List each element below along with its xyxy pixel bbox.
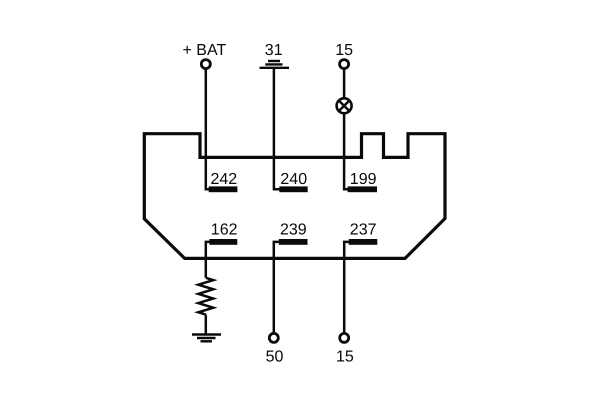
svg-text:15: 15	[336, 349, 354, 366]
svg-text:199: 199	[350, 171, 377, 188]
wire pin 162 to resistor	[206, 242, 210, 278]
wire + BAT to pin 242	[206, 70, 212, 190]
terminal circle 15 (bottom)	[340, 333, 349, 342]
wire resistor to ground	[205, 315, 208, 335]
wire 31 to pin 240	[274, 68, 282, 189]
svg-text:237: 237	[350, 221, 377, 238]
pin 242 contact bar	[209, 186, 238, 192]
connector housing outline	[144, 134, 445, 259]
terminal circle 15 (top)	[340, 60, 349, 69]
terminal circle 50	[269, 333, 278, 342]
wire pin 239 to terminal 50	[274, 242, 283, 332]
wire lamp to pin 199	[344, 114, 351, 190]
wire pin 237 to terminal 15 (bottom)	[344, 242, 353, 332]
svg-text:15: 15	[335, 42, 353, 59]
indicator lamp	[337, 98, 352, 113]
pin 199 contact bar	[348, 186, 377, 192]
pin 162 contact bar	[209, 239, 237, 245]
svg-text:239: 239	[280, 221, 307, 238]
wire 15 to lamp	[343, 70, 346, 98]
svg-text:162: 162	[211, 221, 238, 238]
pin 237 contact bar	[349, 239, 378, 245]
terminal circle + BAT	[201, 60, 210, 69]
svg-text:240: 240	[280, 171, 307, 188]
svg-text:242: 242	[211, 171, 238, 188]
resistor	[198, 278, 213, 315]
svg-text:+ BAT: + BAT	[183, 42, 227, 59]
svg-text:50: 50	[266, 349, 284, 366]
ground symbol (bottom)	[192, 335, 221, 342]
pin 239 contact bar	[279, 239, 308, 245]
pin 240 contact bar	[279, 186, 307, 192]
svg-text:31: 31	[265, 42, 283, 59]
ground symbol node 31	[260, 61, 290, 68]
